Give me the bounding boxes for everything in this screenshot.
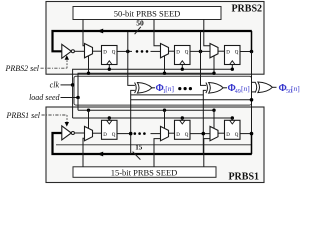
wire mux3 to DFF3 bbox=[218, 50, 225, 52]
wire Q2' to mux3' bbox=[190, 133, 210, 135]
svg-text:Q: Q bbox=[185, 51, 189, 56]
load-seed rail PRBS2 bbox=[78, 73, 214, 97]
svg-text:load seed: load seed bbox=[29, 93, 60, 102]
node tap3 mid junction bbox=[250, 98, 254, 102]
mux M3 (PRBS2) bbox=[210, 44, 218, 58]
svg-text:PRBS1: PRBS1 bbox=[228, 172, 259, 183]
D flip-flop FF2 (PRBS2) bbox=[175, 46, 191, 65]
mux M3' (PRBS1) bbox=[210, 126, 218, 140]
svg-text:[n]: [n] bbox=[291, 84, 300, 93]
wire Q2 to mux3 bbox=[190, 50, 210, 52]
XOR gate X1 bbox=[135, 82, 152, 93]
XOR1 output wire bbox=[152, 87, 155, 89]
svg-text:49: 49 bbox=[235, 89, 241, 95]
FF1 clock stub bbox=[108, 65, 110, 70]
load seed trunk down bbox=[77, 98, 79, 111]
svg-text:Q: Q bbox=[235, 133, 239, 138]
node Q2' junction bbox=[202, 132, 206, 136]
svg-text:PRBS1 sel: PRBS1 sel bbox=[5, 111, 40, 120]
svg-text:Q: Q bbox=[185, 133, 189, 138]
PRBS2 sel dash-dot leader bbox=[41, 67, 68, 69]
load-seed rail PRBS1 dots bbox=[87, 109, 90, 112]
wire to mux2' bbox=[151, 133, 161, 135]
riser PRBS2 tap1: thick line to Q1 to XOR1 upper bbox=[128, 32, 135, 85]
ellipsis bottom row bbox=[134, 132, 146, 135]
svg-text:PRBS2 sel: PRBS2 sel bbox=[4, 64, 39, 73]
50-bit PRBS SEED box bbox=[73, 7, 221, 20]
FF2 clock stub bbox=[181, 65, 183, 70]
shared tap wire XOR1-XOR2 bbox=[131, 94, 204, 96]
shared tap wire to XOR3 bbox=[131, 99, 252, 101]
mux M2' (PRBS1) bbox=[161, 126, 169, 140]
D flip-flop FF2' (PRBS1) bbox=[175, 120, 191, 139]
svg-text:D: D bbox=[176, 133, 180, 138]
wire mux1' to DFF1' bbox=[93, 132, 102, 134]
svg-text:50: 50 bbox=[136, 19, 144, 28]
svg-text:50-bit PRBS SEED: 50-bit PRBS SEED bbox=[114, 8, 181, 18]
svg-text:[n]: [n] bbox=[165, 84, 174, 93]
wire Q1 bbox=[117, 50, 132, 52]
mux M1 (PRBS2) bbox=[85, 44, 93, 58]
load-seed rail PRBS2 dots bbox=[87, 72, 90, 75]
wire mux1 to DFF1 bbox=[93, 50, 102, 52]
mux M3 select stub bbox=[213, 56, 215, 73]
XOR3 input stubs bbox=[252, 81, 256, 83]
bus slash 15 (PRBS1) bbox=[133, 152, 141, 160]
XOR gate X3 bbox=[255, 82, 272, 93]
svg-text:PRBS2: PRBS2 bbox=[231, 4, 262, 15]
seed line stage1 (PRBS1) bbox=[83, 138, 85, 167]
wire inverter to mux1 bbox=[74, 50, 84, 52]
node Q3' junction bbox=[250, 132, 254, 136]
svg-text:15-bit PRBS SEED: 15-bit PRBS SEED bbox=[111, 168, 178, 178]
wire Q1' bbox=[117, 133, 132, 135]
middle distribution box bbox=[74, 76, 252, 105]
D flip-flop FF3 (PRBS2) bbox=[225, 46, 241, 65]
clk rail PRBS2 dots bbox=[108, 68, 111, 71]
inner row line PRBS1 bbox=[56, 144, 252, 146]
FF3 clock stub bbox=[231, 65, 233, 70]
PRBS2 block box bbox=[46, 2, 264, 75]
svg-text:clk: clk bbox=[50, 80, 60, 89]
svg-text:[n]: [n] bbox=[241, 84, 250, 93]
svg-text:D: D bbox=[103, 51, 107, 56]
load seed leader wire bbox=[61, 97, 79, 99]
wire inverter to mux1' bbox=[74, 132, 84, 134]
PRBS1 sel dash-dot leader bbox=[42, 114, 68, 116]
thick feedback bus PRBS2 bbox=[53, 31, 252, 52]
wire mux2 to DFF2 bbox=[169, 50, 175, 52]
label Phi49[n] bbox=[228, 83, 250, 95]
label Phi50[n] bbox=[279, 83, 300, 95]
svg-text:15: 15 bbox=[135, 144, 143, 152]
thick feedback bus PRBS1 bbox=[53, 133, 252, 154]
FF2' clock stub bbox=[181, 118, 183, 120]
riser tap3 vertical (PRBS2 Q3 down to PRBS1 Q3) bbox=[251, 52, 253, 134]
ellipsis top row bbox=[136, 50, 149, 53]
label Phi1[n] bbox=[156, 83, 175, 95]
svg-text:Q: Q bbox=[235, 51, 239, 56]
wire to mux2 bbox=[151, 50, 161, 52]
seed line stage2 (PRBS1) bbox=[154, 139, 161, 167]
15-bit PRBS SEED box bbox=[73, 167, 216, 178]
load-seed rail PRBS1 bbox=[78, 109, 214, 111]
mux M1' select stub bbox=[88, 110, 90, 128]
wire Q3 to feedback bbox=[240, 51, 252, 53]
ellipsis XOR row bbox=[178, 87, 192, 90]
node clk junction bbox=[71, 83, 75, 87]
D flip-flop FF3' (PRBS1) bbox=[225, 120, 241, 139]
wire Q3' to feedback bbox=[240, 133, 252, 135]
clk leader wire bbox=[61, 84, 73, 86]
mux M2' select stub bbox=[164, 110, 166, 128]
svg-text:D: D bbox=[226, 51, 230, 56]
node load seed junction bbox=[76, 96, 80, 100]
wire mux3' to DFF3' bbox=[218, 132, 225, 134]
D flip-flop FF1' (PRBS1) bbox=[102, 120, 118, 139]
svg-text:D: D bbox=[103, 133, 107, 138]
arrowhead on PRBS1 feedback bbox=[97, 152, 103, 157]
riser PRBS2 tap2 to XOR2 upper bbox=[201, 32, 207, 86]
seed line stage3 (PRBS1) bbox=[204, 139, 210, 167]
svg-text:D: D bbox=[226, 133, 230, 138]
node Q3 junction bbox=[250, 50, 254, 54]
seed line stage2 (PRBS2) bbox=[154, 20, 161, 46]
clk trunk down bbox=[72, 85, 74, 118]
clk rail PRBS1 dots bbox=[108, 116, 111, 119]
inverter U2a (PRBS2 feedback) bbox=[62, 44, 75, 58]
XOR3 output wire bbox=[273, 86, 277, 88]
XOR2 output wire bbox=[223, 87, 227, 89]
bus slash 50 (PRBS2) bbox=[135, 27, 141, 34]
svg-text:Q: Q bbox=[112, 51, 116, 56]
wire mux2' to DFF2' bbox=[169, 132, 175, 134]
XOR gate X2 bbox=[206, 82, 223, 93]
inverter U1a (PRBS1 feedback) bbox=[62, 126, 75, 140]
node Q1 junction bbox=[126, 50, 130, 54]
clk rail PRBS2 bbox=[73, 69, 233, 85]
PRBS1 block box bbox=[46, 107, 264, 183]
FF1' clock stub bbox=[108, 118, 110, 120]
seed line stage3 (PRBS2) bbox=[204, 20, 210, 46]
mux M2 (PRBS2) bbox=[161, 44, 169, 58]
svg-text:D: D bbox=[176, 51, 180, 56]
riser PRBS1 tap1 to XOR1 lower bbox=[131, 90, 135, 154]
PRBS1 sel dashed riser + arrow bbox=[66, 115, 68, 123]
mux M1' (PRBS1) bbox=[85, 126, 93, 140]
mux M3' select stub bbox=[213, 110, 215, 128]
mux M1 select stub bbox=[88, 56, 90, 73]
D flip-flop FF1 (PRBS2) bbox=[102, 46, 118, 65]
PRBS2 sel dashed riser + arrow bbox=[66, 60, 68, 69]
node Q2 junction bbox=[199, 50, 203, 54]
riser PRBS1 tap2 to XOR2 lower bbox=[203, 90, 206, 153]
mux M2 select stub bbox=[164, 56, 166, 73]
arrowhead on PRBS2 feedback bbox=[97, 29, 103, 34]
FF3' clock stub bbox=[231, 118, 233, 120]
clk rail PRBS1 bbox=[73, 117, 233, 119]
node Q1' junction bbox=[129, 132, 133, 136]
seed line stage1 (PRBS2) bbox=[83, 20, 85, 46]
svg-text:Q: Q bbox=[112, 133, 116, 138]
